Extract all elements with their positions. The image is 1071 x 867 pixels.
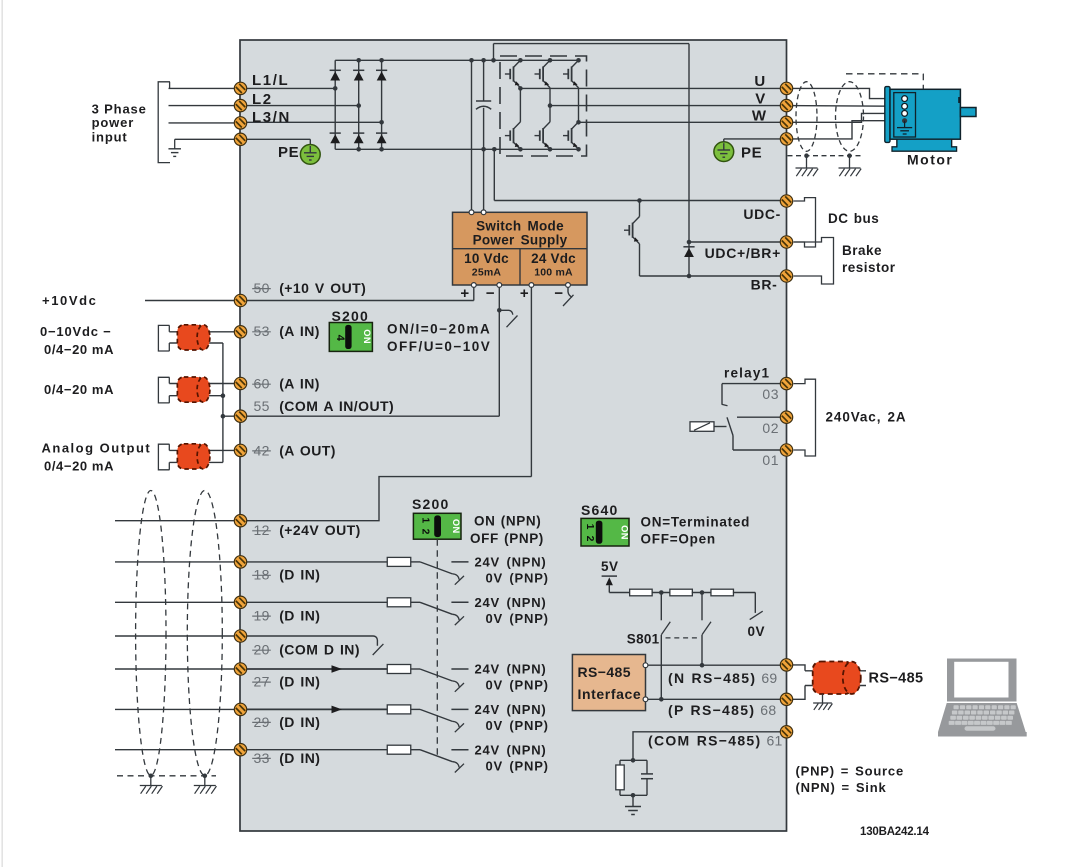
svg-text:0/4−20 mA: 0/4−20 mA [44, 382, 114, 397]
svg-text:0V (PNP): 0V (PNP) [486, 718, 549, 733]
svg-text:+: + [460, 285, 469, 302]
svg-text:0−10Vdc −: 0−10Vdc − [40, 324, 112, 339]
svg-text:OFF (PNP): OFF (PNP) [470, 531, 544, 546]
svg-text:0/4−20 mA: 0/4−20 mA [44, 458, 114, 473]
svg-text:+: + [520, 285, 529, 302]
svg-text:−: − [554, 285, 563, 302]
svg-text:10 Vdc: 10 Vdc [464, 251, 509, 266]
svg-text:UDC+/BR+: UDC+/BR+ [705, 245, 781, 261]
svg-text:0V (PNP): 0V (PNP) [486, 758, 549, 773]
svg-text:+10Vdc: +10Vdc [42, 293, 98, 308]
svg-text:OFF/U=0−10V: OFF/U=0−10V [387, 339, 491, 354]
svg-text:−: − [486, 285, 495, 302]
svg-text:240Vac, 2A: 240Vac, 2A [826, 409, 907, 424]
svg-text:(PNP) = Source: (PNP) = Source [796, 763, 904, 778]
svg-text:BR-: BR- [751, 276, 778, 292]
svg-text:0V (PNP): 0V (PNP) [486, 571, 549, 586]
svg-text:(N RS−485)69: (N RS−485)69 [668, 670, 778, 686]
svg-text:ON: ON [362, 329, 372, 344]
svg-text:RS−485: RS−485 [869, 670, 924, 686]
svg-text:ON: ON [451, 519, 461, 534]
svg-text:Power Supply: Power Supply [473, 232, 568, 247]
svg-text:24V (NPN): 24V (NPN) [475, 662, 547, 677]
svg-text:PE: PE [741, 144, 762, 161]
svg-text:W: W [752, 107, 767, 124]
svg-text:0V (PNP): 0V (PNP) [486, 678, 549, 693]
svg-text:relay1: relay1 [724, 365, 770, 380]
svg-text:L3/N: L3/N [252, 109, 291, 126]
svg-text:power: power [92, 115, 135, 130]
svg-text:(P RS−485)68: (P RS−485)68 [668, 702, 776, 718]
svg-text:RS−485: RS−485 [578, 664, 631, 680]
svg-text:input: input [92, 129, 128, 144]
svg-text:03: 03 [762, 386, 779, 402]
svg-text:02: 02 [762, 420, 779, 436]
svg-text:100 mA: 100 mA [534, 266, 573, 278]
svg-text:1: 1 [584, 524, 596, 530]
svg-text:0/4−20 mA: 0/4−20 mA [44, 342, 114, 357]
svg-text:Brake: Brake [842, 243, 882, 258]
svg-text:S801: S801 [627, 632, 660, 647]
svg-text:OFF=Open: OFF=Open [641, 532, 716, 547]
svg-text:01: 01 [762, 452, 779, 468]
svg-text:29(D IN): 29(D IN) [254, 714, 321, 730]
svg-text:L1/L: L1/L [252, 72, 289, 89]
svg-text:L2: L2 [252, 91, 273, 108]
svg-text:20(COM D IN): 20(COM D IN) [254, 642, 360, 658]
svg-text:DC bus: DC bus [828, 211, 879, 226]
svg-text:130BA242.14: 130BA242.14 [860, 826, 930, 838]
svg-text:ON=Terminated: ON=Terminated [641, 514, 751, 529]
svg-text:2: 2 [584, 536, 596, 542]
svg-text:S640: S640 [581, 502, 619, 518]
svg-text:25mA: 25mA [472, 266, 502, 278]
svg-text:S200: S200 [332, 308, 370, 324]
svg-text:2: 2 [420, 529, 432, 535]
svg-text:24V (NPN): 24V (NPN) [475, 595, 547, 610]
svg-text:(NPN) = Sink: (NPN) = Sink [796, 780, 887, 795]
svg-text:5V: 5V [601, 559, 619, 574]
svg-text:resistor: resistor [842, 260, 896, 275]
svg-text:24V (NPN): 24V (NPN) [475, 742, 547, 757]
svg-text:Motor: Motor [907, 152, 953, 168]
svg-text:Analog Output: Analog Output [42, 440, 152, 455]
svg-text:0V (PNP): 0V (PNP) [486, 611, 549, 626]
svg-text:24V (NPN): 24V (NPN) [475, 555, 547, 570]
svg-text:PE: PE [278, 144, 299, 161]
svg-text:V: V [755, 90, 766, 107]
svg-text:ON: ON [620, 525, 630, 540]
svg-text:U: U [754, 73, 765, 90]
svg-text:24 Vdc: 24 Vdc [531, 251, 576, 266]
svg-text:ON (NPN): ON (NPN) [474, 514, 541, 529]
svg-text:33(D IN): 33(D IN) [254, 750, 321, 766]
svg-text:S200: S200 [412, 496, 450, 512]
svg-text:ON/I=0−20mA: ON/I=0−20mA [387, 321, 491, 336]
svg-text:Interface: Interface [578, 686, 642, 702]
svg-text:24V (NPN): 24V (NPN) [475, 702, 547, 717]
svg-text:4: 4 [334, 335, 346, 342]
svg-text:0V: 0V [748, 624, 766, 639]
svg-text:1: 1 [420, 517, 432, 523]
svg-text:UDC-: UDC- [743, 206, 781, 222]
